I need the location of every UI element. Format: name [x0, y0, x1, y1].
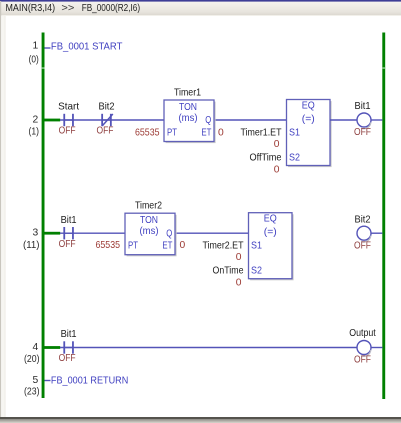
svg-text:65535: 65535: [96, 240, 121, 251]
svg-text:Q: Q: [205, 115, 211, 126]
svg-text:Bit1: Bit1: [61, 329, 77, 340]
output coil Output: [357, 341, 371, 355]
svg-text:PT: PT: [167, 128, 178, 139]
svg-text:0: 0: [274, 139, 280, 150]
rung 2 left rail stub (green): [45, 119, 61, 122]
svg-text:Q: Q: [166, 228, 172, 239]
output coil Bit1: [357, 113, 371, 127]
compare block EQ rung 3: [250, 214, 294, 280]
svg-text:(ms): (ms): [140, 226, 159, 237]
svg-text:Bit2: Bit2: [99, 102, 115, 113]
svg-text:OFF: OFF: [59, 239, 76, 250]
svg-text:OFF: OFF: [354, 355, 371, 366]
svg-text:Timer1.ET: Timer1.ET: [241, 128, 283, 139]
svg-text:0: 0: [180, 240, 186, 251]
svg-text:ET: ET: [201, 128, 212, 139]
svg-text:65535: 65535: [135, 128, 160, 139]
svg-text:OffTime: OffTime: [250, 153, 282, 164]
left power rail: [42, 33, 45, 399]
svg-text:0: 0: [218, 128, 224, 139]
svg-text:Start: Start: [58, 102, 79, 113]
rung 3 wire coil to right rail: [371, 232, 383, 234]
svg-text:(20): (20): [24, 354, 40, 365]
svg-text:OFF: OFF: [354, 127, 371, 138]
svg-text:OnTime: OnTime: [213, 266, 244, 277]
svg-text:OFF: OFF: [59, 353, 76, 364]
timer block Timer1 TON: [166, 102, 216, 144]
NO contact Start: [64, 114, 73, 126]
compare block EQ rung 2: [288, 101, 332, 167]
svg-text:S1: S1: [289, 128, 300, 139]
left window border: [0, 1, 1, 418]
svg-text:5: 5: [32, 375, 38, 386]
svg-text:EQ: EQ: [264, 214, 277, 225]
timer block Timer2 TON: [127, 215, 177, 256]
svg-text:S2: S2: [289, 153, 300, 164]
header top navy border: [0, 0, 401, 2]
svg-text:4: 4: [32, 342, 38, 353]
svg-text:S1: S1: [251, 241, 262, 252]
svg-text:0: 0: [236, 252, 242, 263]
right power rail: [382, 33, 385, 400]
svg-text:OFF: OFF: [97, 126, 114, 137]
svg-text:Bit1: Bit1: [61, 215, 77, 226]
bottom window border: [0, 417, 401, 419]
header bottom edge: [0, 15, 401, 16]
NO contact Bit1 rung 4: [64, 341, 73, 353]
svg-text:(0): (0): [29, 55, 39, 66]
rung 1 stub wire: [45, 47, 51, 49]
svg-text:0: 0: [274, 165, 280, 176]
svg-text:Timer2: Timer2: [135, 201, 162, 212]
rung 5 stub wire: [45, 380, 51, 382]
svg-text:FB_0001 START: FB_0001 START: [51, 41, 123, 53]
NC contact Bit2: [102, 114, 113, 126]
svg-text:EQ: EQ: [302, 101, 315, 112]
svg-text:ET: ET: [162, 241, 173, 252]
rung 4 wire coil to right rail: [371, 347, 383, 349]
svg-text:2: 2: [32, 115, 38, 126]
output coil Bit2: [357, 226, 371, 240]
rung 2 wire coil to right rail: [371, 119, 383, 121]
NO contact Bit1: [64, 227, 73, 239]
svg-text:3: 3: [32, 228, 38, 239]
rung 4 wire contact to coil: [60, 347, 357, 349]
svg-text:MAIN(R3,I4): MAIN(R3,I4): [6, 3, 56, 14]
svg-text:FB_0000(R2,I6): FB_0000(R2,I6): [82, 3, 140, 14]
svg-text:S2: S2: [251, 266, 262, 277]
svg-text:(23): (23): [24, 387, 40, 398]
svg-text:FB_0001 RETURN: FB_0001 RETURN: [51, 375, 128, 387]
rung 2 wire contacts to EQ: [60, 119, 330, 121]
svg-text:Output: Output: [349, 328, 376, 339]
svg-text:OFF: OFF: [354, 240, 371, 251]
left rail segment gap: [42, 67, 45, 69]
svg-text:Bit2: Bit2: [355, 214, 371, 225]
svg-text:0: 0: [236, 278, 242, 289]
svg-text:(=): (=): [264, 227, 277, 238]
svg-text:(11): (11): [23, 240, 40, 251]
rung 2 wire EQ to coil: [330, 119, 357, 121]
svg-text:Timer2.ET: Timer2.ET: [203, 241, 245, 252]
rung 3 wire contact to EQ: [60, 232, 292, 234]
right rail segment gap: [382, 67, 385, 69]
svg-text:>>: >>: [61, 3, 74, 14]
svg-text:Timer1: Timer1: [174, 88, 201, 99]
svg-text:1: 1: [32, 41, 38, 52]
svg-text:TON: TON: [140, 215, 158, 226]
svg-text:(=): (=): [302, 114, 315, 125]
rung 4 left rail stub (green): [45, 346, 61, 349]
svg-text:OFF: OFF: [59, 126, 76, 137]
svg-text:(1): (1): [29, 127, 40, 138]
svg-text:PT: PT: [128, 241, 139, 252]
svg-text:(ms): (ms): [179, 113, 198, 124]
rung 3 left rail stub (green): [45, 232, 61, 235]
svg-text:TON: TON: [179, 102, 197, 113]
svg-text:Bit1: Bit1: [355, 101, 371, 112]
